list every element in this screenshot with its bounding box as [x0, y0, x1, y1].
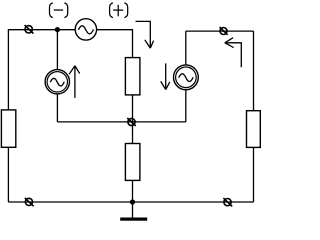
wire right source bottom vertical	[185, 90, 187, 122]
resistor right	[247, 111, 261, 148]
wire right source top vertical	[185, 31, 187, 65]
ac source top (single circle)	[75, 19, 96, 40]
wire left vertical upper	[7, 29, 9, 110]
node marker bottom-left (crossed circle)	[25, 198, 34, 206]
node marker center (crossed circle)	[127, 118, 136, 126]
wire node-A to left source vertical	[56, 30, 58, 70]
wire left vertical lower	[7, 147, 9, 202]
arrow down (right source current)	[161, 63, 170, 89]
ground	[120, 218, 147, 221]
wire middle vertical through node	[132, 95, 134, 144]
wire middle branch vertical top	[132, 29, 134, 57]
arrow up (left source current)	[69, 66, 80, 98]
resistor middle-top	[125, 58, 139, 95]
wire top-mid horizontal	[97, 29, 133, 31]
wire right vertical upper	[253, 31, 255, 111]
node marker bottom-right (crossed circle)	[223, 198, 232, 206]
resistor middle-bottom	[125, 144, 139, 181]
node marker top-right (crossed circle)	[220, 27, 228, 35]
node marker top-left (crossed circle)	[25, 25, 34, 33]
ac source right (double circle)	[174, 65, 199, 90]
wire top-right horizontal	[186, 30, 254, 32]
wire left source bottom vertical	[56, 94, 58, 122]
wire middle vertical to ground	[132, 180, 134, 217]
wire center horizontal	[57, 121, 185, 123]
ac source left (double circle)	[45, 70, 69, 94]
resistor left	[1, 110, 15, 147]
wire bottom horizontal	[8, 201, 253, 203]
label (+)	[110, 3, 128, 18]
wire top-left horizontal	[8, 29, 75, 31]
junction dot ground node	[130, 199, 135, 204]
junction dot node A	[55, 27, 60, 32]
arrow hook left (top right current)	[225, 38, 242, 67]
arrow hook down (top middle current)	[136, 21, 154, 48]
label (-)	[50, 3, 68, 18]
wire right vertical lower	[253, 147, 255, 202]
